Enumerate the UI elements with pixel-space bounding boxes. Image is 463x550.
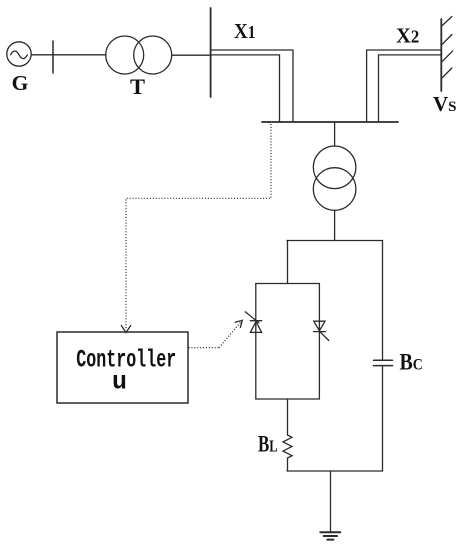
- svg-text:T: T: [130, 74, 145, 99]
- svg-text:X2: X2: [396, 24, 419, 48]
- svg-text:u: u: [112, 368, 127, 397]
- svg-text:X1: X1: [234, 19, 256, 43]
- svg-text:G: G: [12, 71, 29, 95]
